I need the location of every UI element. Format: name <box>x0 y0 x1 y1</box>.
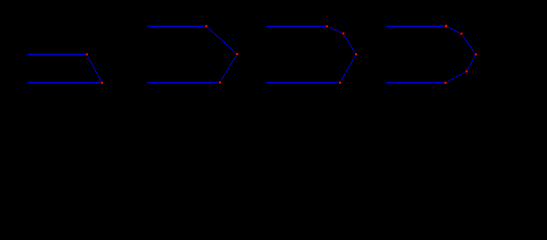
node: shape4 upper-mid vertex edge <box>460 32 464 36</box>
wire: shape2 bottom offset line <box>147 82 220 84</box>
wire: shape2 top offset line <box>147 25 206 27</box>
wire: shape1 bottom offset line <box>28 82 102 84</box>
shape 1: stroke outline, 1-segment cap <box>28 54 102 82</box>
node: shape4 lower-mid vertex edge <box>465 69 469 73</box>
node: shape3 top vertex edge <box>325 24 329 28</box>
shape 3: stroke outline, 3-segment cap <box>266 26 356 82</box>
node: shape1 bottom vertex edge <box>100 81 104 85</box>
node: shape3 apex vertex edge <box>354 52 358 56</box>
node: shape1 top vertex <box>86 53 88 55</box>
wire: shape3 bottom offset line <box>266 82 340 84</box>
node: shape3 apex vertex <box>355 53 357 55</box>
node: shape1 bottom vertex <box>101 82 103 84</box>
node: shape2 bottom vertex edge <box>218 81 222 85</box>
node: shape4 upper-mid vertex <box>460 33 462 35</box>
node: shape4 apex vertex <box>475 53 477 55</box>
node: shape2 apex vertex <box>236 53 238 55</box>
wire: shape4 bottom offset line <box>386 82 445 84</box>
node: shape4 top vertex edge <box>444 24 448 28</box>
node: shape3 bottom vertex edge <box>338 81 342 85</box>
node: shape2 apex vertex edge <box>235 52 239 56</box>
node: shape4 top vertex <box>445 25 448 28</box>
node: shape3 bottom vertex <box>339 82 341 84</box>
wire: shape1 top offset line <box>28 53 87 55</box>
node: shape4 bottom vertex <box>444 82 446 84</box>
wire: shape3 cap segments <box>327 26 356 82</box>
wire: shape1 cap segment <box>87 54 102 82</box>
node: shape2 bottom vertex <box>219 81 221 83</box>
node: shape1 top vertex edge <box>85 53 89 57</box>
node: shape2 top vertex edge <box>204 24 208 28</box>
node: shape3 upper-mid vertex edge <box>341 32 345 36</box>
node: shape2 top vertex <box>205 25 207 27</box>
node: shape4 bottom vertex edge <box>444 81 448 85</box>
node: shape3 upper-mid vertex <box>342 32 344 34</box>
node: shape4 apex vertex edge <box>474 53 478 57</box>
wire: shape2 cap segments <box>206 26 237 82</box>
node: shape3 top vertex <box>326 25 328 27</box>
vertex markers: black edge squares under red cores <box>85 24 478 85</box>
wire: shape4 top offset line <box>386 25 446 27</box>
shape 4: stroke outline, 4-segment cap <box>386 26 476 82</box>
node: shape4 lower-mid vertex <box>466 70 468 72</box>
wire: shape3 top offset line <box>266 25 327 27</box>
wire: shape4 cap segments <box>445 26 475 82</box>
shape 2: stroke outline, 2-segment cap <box>147 26 237 82</box>
